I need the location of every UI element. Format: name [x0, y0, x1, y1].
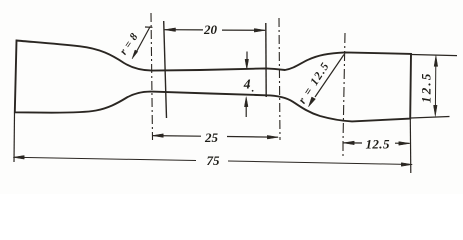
- svg-text:20: 20: [203, 22, 218, 37]
- gauge mark right: [265, 23, 267, 97]
- vertical dim 12.5 right: [411, 55, 457, 119]
- dim 4 upper arrow: [245, 52, 249, 70]
- svg-text:12.5: 12.5: [366, 136, 390, 151]
- extension line bottom-left (75): [13, 113, 16, 162]
- dim 4 lower arrow: [244, 97, 248, 117]
- specimen outline: [15, 41, 411, 122]
- speck after 4: [252, 90, 254, 92]
- svg-text:4: 4: [243, 77, 251, 92]
- gauge mark left: [164, 21, 167, 118]
- dim 20: [165, 28, 266, 32]
- svg-text:r = 8: r = 8: [118, 31, 141, 57]
- centerline right: [279, 18, 280, 140]
- tangent line right (for 12.5 dim): [343, 33, 345, 156]
- dim 75: [13, 156, 412, 167]
- svg-text:25: 25: [204, 130, 219, 145]
- r = 12.5 leader: [309, 55, 345, 107]
- centerline left: [151, 13, 153, 140]
- svg-text:12.5: 12.5: [418, 71, 433, 103]
- svg-text:75: 75: [207, 153, 221, 168]
- dim 12.5 bottom right: [343, 141, 410, 145]
- r = 8 leader: [132, 27, 153, 60]
- dim 25: [152, 134, 278, 139]
- extension line bottom-right (75 / 12.5): [409, 119, 412, 173]
